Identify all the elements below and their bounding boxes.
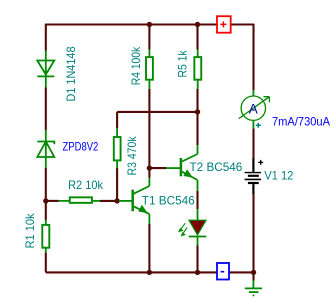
wire node B horizontal to R3 corner (117, 112, 197, 129)
junction node top rail R5 (195, 22, 200, 27)
resistor R2 (59, 197, 101, 203)
svg-text:D1 1N4148: D1 1N4148 (64, 46, 78, 101)
wire left rail below R1 (45, 253, 47, 273)
svg-text:ZPD8V2: ZPD8V2 (63, 139, 99, 153)
wire right rail top corner to ammeter (252, 24, 254, 90)
node A (zener / R1 / R2 junction) (43, 198, 48, 203)
wire left rail between zener and node A (45, 168, 47, 220)
svg-text:7mA/730uA: 7mA/730uA (272, 115, 330, 129)
wire bottom rail right segment (229, 271, 254, 273)
LED D2 (189, 209, 207, 246)
resistor R1 (42, 220, 49, 253)
wire T1 emitter to bottom rail (148, 224, 150, 272)
svg-text:A: A (249, 102, 258, 117)
node B (R3 / R5 / T2 collector) (195, 109, 200, 114)
wire left rail between D1 and zener (45, 88, 47, 131)
transistor T2 (166, 145, 198, 191)
wire node B to T2 collector (196, 112, 198, 145)
minus terminal box (217, 263, 229, 280)
svg-text:V1 12: V1 12 (264, 169, 294, 183)
plus terminal box (217, 16, 231, 33)
wire R2 to T1 base (100, 200, 120, 202)
svg-text:T1 BC546: T1 BC546 (142, 193, 195, 207)
wire node C to T2 base (149, 167, 166, 169)
resistor R3 (114, 129, 121, 169)
ammeter A1 (239, 90, 270, 128)
resistor R4 (146, 49, 153, 88)
junction T1 emitter on bottom rail (147, 270, 152, 275)
transistor T1 (119, 178, 149, 225)
wire top rail to R4 (148, 24, 150, 50)
svg-text:T2 BC546: T2 BC546 (190, 160, 243, 174)
junction R3 bottom on base row (114, 198, 119, 203)
node C (R4 / T1 collector / T2 base) (147, 165, 152, 170)
svg-text:R5 1k: R5 1k (176, 50, 190, 78)
wire R4 to node C (148, 89, 150, 178)
wire top rail left segment (46, 23, 217, 25)
wire T2 emitter to LED anode (196, 191, 198, 209)
junction node top rail R4 (147, 22, 152, 27)
junction ground on bottom rail (251, 270, 256, 275)
resistor R5 (194, 49, 201, 88)
wire R3 bottom to base row junction (116, 168, 118, 201)
wire node A to R2 (46, 200, 59, 202)
svg-text:R3 470k: R3 470k (125, 136, 139, 176)
battery V1 (245, 159, 261, 195)
wire R5 to node B (196, 89, 198, 112)
wire top rail right segment (231, 23, 254, 25)
wire top rail to R5 (196, 24, 198, 50)
wire bottom rail left segment (46, 271, 217, 273)
wire right rail ammeter to battery (252, 128, 254, 159)
battery plus sign (258, 160, 263, 165)
wire LED cathode to bottom rail (196, 246, 198, 273)
zener diode ZPD8V2 (37, 130, 54, 168)
svg-text:R1 10k: R1 10k (23, 213, 37, 249)
junction LED cathode on bottom rail (195, 270, 200, 275)
svg-text:R2 10k: R2 10k (68, 178, 104, 192)
svg-text:R4 100k: R4 100k (129, 46, 143, 85)
wire right rail battery to ground junction (252, 194, 254, 281)
diode D1 (37, 51, 54, 88)
LED light arrows (179, 223, 187, 236)
wire left rail upper segment (above D1) (45, 24, 47, 51)
ground (245, 280, 262, 295)
